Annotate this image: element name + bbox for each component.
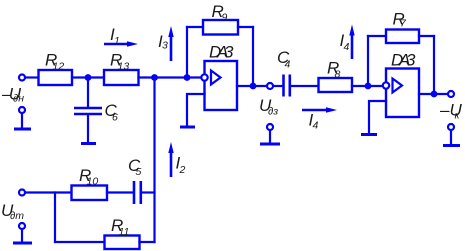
svg-text:4: 4 bbox=[285, 59, 291, 71]
wire R10 to C5 bbox=[107, 191, 133, 193]
terminal ground left top bbox=[19, 107, 25, 113]
terminal ground Udz bbox=[267, 124, 273, 130]
resistor R8 bbox=[319, 78, 353, 92]
current arrow I4 upper bbox=[349, 25, 354, 60]
svg-text:∂т: ∂т bbox=[10, 210, 24, 222]
svg-text:2: 2 bbox=[179, 164, 186, 176]
wire C5 to main vertical bbox=[142, 191, 155, 193]
svg-text:3: 3 bbox=[162, 40, 168, 52]
ground C6 bbox=[81, 142, 96, 145]
svg-text:4: 4 bbox=[313, 120, 319, 132]
ground bar Udt bbox=[13, 242, 32, 245]
wire branch vertical left bbox=[54, 193, 56, 243]
wire C6 to ground bbox=[87, 115, 89, 143]
resistor R9 bbox=[203, 20, 238, 35]
wire main vertical bbox=[153, 78, 155, 243]
current arrow I4 lower bbox=[302, 107, 337, 112]
wire feedback1 left vertical bbox=[186, 27, 188, 78]
resistor R13 bbox=[104, 70, 139, 85]
ground noninverting 2 bbox=[361, 133, 377, 136]
terminal Udz bbox=[267, 83, 273, 89]
current arrow I3 bbox=[168, 26, 173, 61]
svg-text:11: 11 bbox=[119, 226, 130, 238]
svg-text:DA3: DA3 bbox=[391, 51, 416, 70]
current arrow I2 bbox=[168, 142, 173, 177]
svg-text:1: 1 bbox=[114, 35, 120, 47]
terminal ground Udt bbox=[19, 223, 25, 229]
wire noninverting input 2 bbox=[369, 101, 386, 133]
svg-text:5: 5 bbox=[136, 166, 142, 178]
wire R12 to R13 bbox=[72, 76, 104, 78]
ground bar -Uk bbox=[443, 144, 460, 147]
wire feedback2 top right bbox=[419, 35, 434, 37]
resistor R7 bbox=[386, 30, 419, 44]
wire Udt to R10 bbox=[25, 191, 71, 193]
node junction main vertical bbox=[151, 74, 158, 81]
wire terminal to C4 bbox=[273, 85, 282, 87]
svg-text:8: 8 bbox=[335, 69, 341, 81]
svg-text:13: 13 bbox=[118, 61, 130, 73]
resistor R10 bbox=[72, 186, 108, 201]
inverting input circle DA3 first bbox=[201, 74, 207, 80]
wire feedback1 right vertical bbox=[252, 27, 254, 86]
capacitor C6 bbox=[74, 108, 102, 114]
current arrow I1 bbox=[104, 41, 138, 46]
op-amp DA3 second bbox=[386, 69, 419, 118]
wire output2 bbox=[419, 93, 448, 95]
op-amp DA3 first bbox=[205, 61, 238, 110]
svg-text:∂з: ∂з bbox=[268, 106, 278, 118]
svg-text:9: 9 bbox=[222, 12, 228, 24]
svg-text:6: 6 bbox=[112, 112, 118, 124]
terminal ground -Uk bbox=[448, 124, 454, 130]
node junction feedback2 bbox=[365, 83, 372, 90]
wire terminal to R12 bbox=[25, 76, 38, 78]
terminal Udt input bbox=[19, 190, 25, 196]
inverting input circle DA3 second bbox=[383, 82, 389, 88]
ground stem Udt bbox=[21, 229, 23, 242]
wire feedback2 right vertical bbox=[433, 36, 435, 94]
ground noninverting 1 bbox=[180, 126, 195, 129]
node junction output2 bbox=[431, 91, 438, 98]
wire R11 to main vertical bbox=[140, 241, 155, 243]
svg-text:10: 10 bbox=[87, 176, 99, 188]
wire R13 to opamp bbox=[139, 76, 202, 78]
capacitor C5 bbox=[134, 181, 141, 204]
wire C4 to R8 bbox=[291, 85, 319, 87]
node junction feedback1 bbox=[184, 74, 191, 81]
wire bottom horizontal bbox=[55, 241, 105, 243]
wire R8 to opamp2 bbox=[352, 85, 383, 87]
wire feedback2 top left bbox=[368, 35, 386, 37]
ground bar Udz bbox=[260, 143, 280, 146]
resistor R11 bbox=[105, 236, 140, 250]
svg-text:∂н: ∂н bbox=[13, 93, 24, 105]
ground stem -Uk bbox=[450, 130, 452, 144]
wire noninverting input 1 bbox=[187, 94, 205, 126]
terminal -Udn input bbox=[19, 75, 25, 81]
resistor R12 bbox=[39, 70, 73, 85]
wire node to C6 bbox=[87, 78, 89, 108]
wire feedback1 top right bbox=[238, 26, 253, 28]
wire feedback1 top left bbox=[187, 26, 203, 28]
capacitor C4 bbox=[284, 75, 290, 97]
svg-text:4: 4 bbox=[344, 41, 350, 53]
svg-text:DA3: DA3 bbox=[209, 43, 234, 62]
svg-text:12: 12 bbox=[53, 61, 65, 73]
node junction C6 bbox=[85, 74, 92, 81]
ground stem bbox=[21, 113, 23, 128]
wire output1 bbox=[237, 85, 267, 87]
terminal -Uk bbox=[448, 91, 454, 97]
wire feedback2 left vertical bbox=[367, 36, 369, 86]
ground bar bbox=[14, 128, 31, 131]
ground stem Udz bbox=[269, 130, 271, 143]
node junction output1 bbox=[250, 83, 257, 90]
